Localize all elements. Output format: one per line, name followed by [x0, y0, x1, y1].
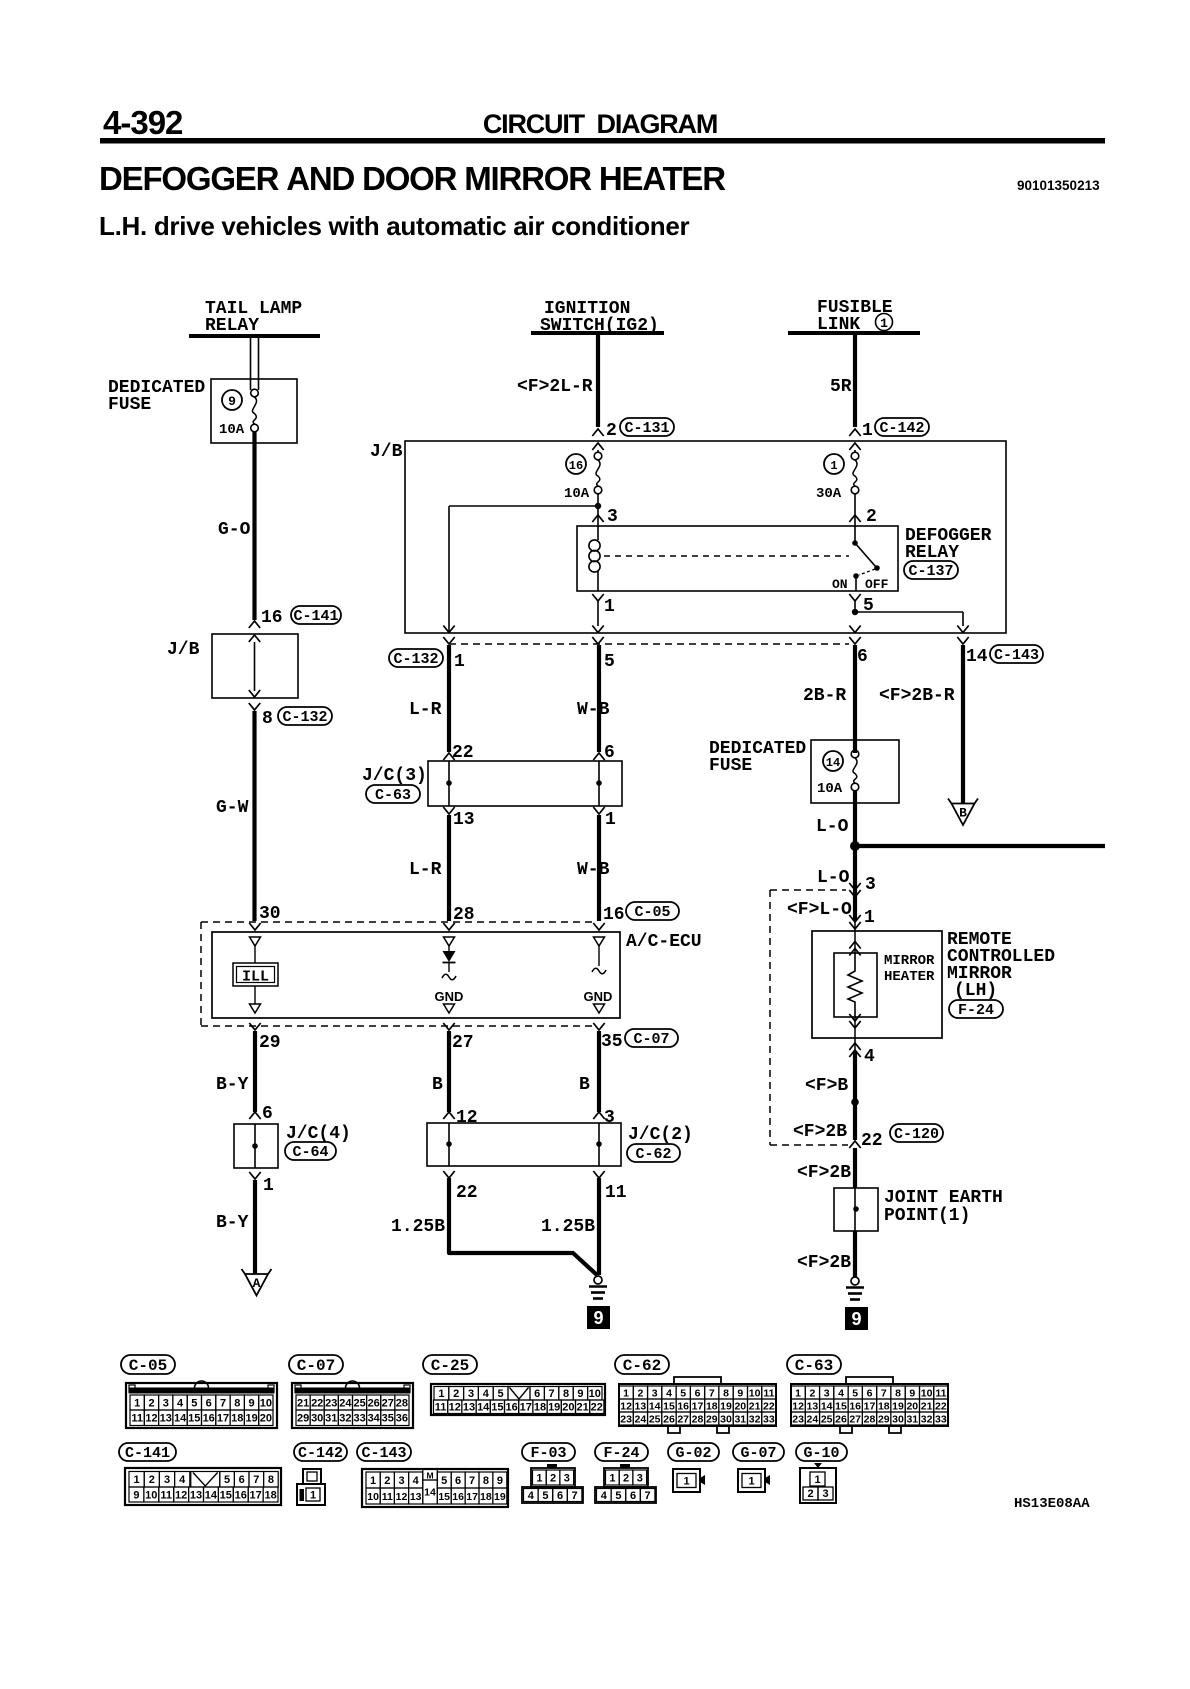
svg-text:18: 18 [264, 1490, 276, 1502]
svg-text:L-R: L-R [409, 860, 442, 880]
svg-text:16: 16 [505, 1402, 517, 1414]
svg-text:6: 6 [604, 743, 615, 763]
svg-text:B: B [959, 806, 967, 821]
svg-text:20: 20 [260, 1413, 272, 1425]
svg-text:10: 10 [921, 1387, 933, 1399]
svg-text:C-142: C-142 [879, 420, 924, 437]
svg-text:G-10: G-10 [803, 1445, 839, 1462]
svg-text:10: 10 [260, 1398, 272, 1410]
svg-text:G-02: G-02 [675, 1445, 711, 1462]
svg-text:<F>2B: <F>2B [797, 1163, 851, 1183]
svg-text:16: 16 [452, 1491, 464, 1503]
svg-text:3: 3 [652, 1387, 658, 1399]
svg-text:13: 13 [410, 1491, 422, 1503]
svg-text:6: 6 [857, 647, 868, 667]
svg-text:19: 19 [892, 1400, 904, 1412]
svg-text:20: 20 [734, 1400, 746, 1412]
svg-text:17: 17 [520, 1402, 532, 1414]
svg-text:16: 16 [235, 1490, 247, 1502]
svg-text:17: 17 [466, 1491, 478, 1503]
svg-text:5: 5 [680, 1387, 686, 1399]
svg-text:1: 1 [609, 1473, 615, 1485]
svg-text:26: 26 [835, 1413, 847, 1425]
svg-text:2: 2 [623, 1473, 629, 1485]
svg-text:10A: 10A [817, 781, 843, 797]
svg-text:W-B: W-B [577, 860, 610, 880]
svg-text:2: 2 [384, 1475, 390, 1487]
svg-text:5: 5 [615, 1490, 621, 1502]
svg-text:B: B [579, 1075, 590, 1095]
svg-text:11: 11 [160, 1490, 172, 1502]
svg-text:19: 19 [494, 1491, 506, 1503]
svg-text:4: 4 [528, 1490, 535, 1502]
svg-text:9: 9 [577, 1388, 583, 1400]
svg-text:9: 9 [909, 1387, 915, 1399]
svg-text:11: 11 [935, 1387, 946, 1399]
svg-text:3: 3 [164, 1474, 170, 1486]
svg-text:34: 34 [368, 1413, 381, 1425]
svg-text:9: 9 [593, 1308, 603, 1328]
svg-text:7: 7 [572, 1490, 578, 1502]
svg-text:11: 11 [763, 1387, 774, 1399]
svg-text:2: 2 [866, 507, 877, 527]
svg-text:C-141: C-141 [125, 1445, 170, 1462]
svg-text:20: 20 [906, 1400, 918, 1412]
svg-text:12: 12 [449, 1402, 461, 1414]
svg-text:1: 1 [795, 1387, 801, 1399]
svg-text:L.H. drive vehicles with autom: L.H. drive vehicles with automatic air c… [99, 211, 690, 241]
svg-text:1: 1 [862, 421, 873, 441]
svg-text:19: 19 [720, 1400, 732, 1412]
svg-text:5: 5 [224, 1474, 230, 1486]
svg-text:26: 26 [368, 1398, 380, 1410]
svg-text:4: 4 [483, 1388, 490, 1400]
svg-text:13: 13 [635, 1400, 647, 1412]
svg-text:3: 3 [824, 1387, 830, 1399]
svg-text:29: 29 [259, 1033, 281, 1053]
svg-text:C-05: C-05 [129, 1357, 167, 1375]
svg-text:12: 12 [396, 1491, 408, 1503]
svg-text:2: 2 [807, 1488, 813, 1500]
svg-text:FUSE: FUSE [108, 395, 151, 415]
svg-text:C-142: C-142 [298, 1445, 343, 1462]
svg-text:1: 1 [134, 1474, 140, 1486]
svg-text:14: 14 [174, 1413, 187, 1425]
svg-text:14: 14 [826, 756, 840, 770]
svg-text:23: 23 [792, 1413, 804, 1425]
svg-text:2: 2 [149, 1474, 155, 1486]
svg-text:3: 3 [163, 1398, 169, 1410]
svg-text:RELAY: RELAY [205, 316, 259, 336]
svg-text:3: 3 [604, 1108, 615, 1128]
svg-text:5: 5 [542, 1490, 548, 1502]
svg-text:14: 14 [821, 1400, 833, 1412]
svg-text:10A: 10A [219, 422, 245, 438]
svg-text:10: 10 [145, 1490, 157, 1502]
svg-text:15: 15 [220, 1490, 232, 1502]
svg-text:6: 6 [695, 1387, 701, 1399]
svg-text:L-R: L-R [409, 700, 442, 720]
svg-text:7: 7 [709, 1387, 715, 1399]
svg-text:8: 8 [483, 1475, 489, 1487]
svg-text:9: 9 [497, 1475, 503, 1487]
svg-text:(LH): (LH) [954, 981, 997, 1001]
svg-text:6: 6 [239, 1474, 245, 1486]
svg-text:22: 22 [311, 1398, 323, 1410]
svg-text:17: 17 [249, 1490, 261, 1502]
svg-text:C-137: C-137 [908, 563, 953, 580]
svg-text:11: 11 [131, 1413, 143, 1425]
svg-text:GND: GND [584, 989, 613, 1004]
svg-text:17: 17 [864, 1400, 876, 1412]
svg-text:F-24: F-24 [958, 1002, 994, 1019]
svg-text:8: 8 [895, 1387, 901, 1399]
svg-text:HEATER: HEATER [884, 969, 935, 985]
svg-text:18: 18 [480, 1491, 492, 1503]
svg-text:1.25B: 1.25B [391, 1217, 445, 1237]
svg-text:J/C(2): J/C(2) [628, 1125, 693, 1145]
svg-text:C-05: C-05 [634, 904, 670, 921]
svg-text:19: 19 [245, 1413, 257, 1425]
svg-text:C-64: C-64 [292, 1144, 328, 1161]
svg-text:3: 3 [607, 507, 618, 527]
svg-text:21: 21 [576, 1402, 588, 1414]
svg-text:1: 1 [623, 1387, 629, 1399]
svg-text:L-O: L-O [816, 817, 849, 837]
svg-text:15: 15 [491, 1402, 503, 1414]
svg-text:W-B: W-B [577, 700, 610, 720]
svg-text:28: 28 [692, 1413, 704, 1425]
svg-text:1: 1 [310, 1489, 316, 1501]
svg-text:22: 22 [456, 1183, 478, 1203]
svg-text:35: 35 [601, 1032, 623, 1052]
svg-text:C-07: C-07 [297, 1357, 335, 1375]
svg-text:<F>2L-R: <F>2L-R [517, 377, 593, 397]
svg-text:27: 27 [452, 1033, 474, 1053]
svg-text:6: 6 [262, 1104, 273, 1124]
svg-text:C-132: C-132 [282, 709, 327, 726]
svg-text:20: 20 [562, 1402, 574, 1414]
svg-text:4: 4 [413, 1475, 420, 1487]
svg-text:5: 5 [498, 1388, 504, 1400]
svg-text:6: 6 [630, 1490, 636, 1502]
svg-text:B-Y: B-Y [216, 1075, 249, 1095]
svg-text:21: 21 [921, 1400, 933, 1412]
svg-text:25: 25 [353, 1398, 365, 1410]
svg-text:8: 8 [262, 709, 273, 729]
svg-text:29: 29 [297, 1413, 309, 1425]
svg-text:30: 30 [259, 904, 281, 924]
svg-text:5: 5 [441, 1475, 447, 1487]
svg-text:8: 8 [268, 1474, 274, 1486]
svg-text:<F>L-O: <F>L-O [787, 900, 852, 920]
svg-text:13: 13 [160, 1413, 172, 1425]
svg-text:4: 4 [666, 1387, 672, 1399]
svg-text:18: 18 [706, 1400, 718, 1412]
svg-text:32: 32 [339, 1413, 351, 1425]
svg-text:4: 4 [838, 1387, 844, 1399]
svg-text:19: 19 [548, 1402, 560, 1414]
svg-text:6: 6 [534, 1388, 540, 1400]
svg-text:35: 35 [382, 1413, 394, 1425]
svg-text:15: 15 [188, 1413, 200, 1425]
svg-text:4-392: 4-392 [103, 104, 183, 141]
svg-text:11: 11 [382, 1491, 393, 1503]
svg-text:4: 4 [177, 1398, 184, 1410]
svg-text:ILL: ILL [242, 969, 269, 986]
svg-text:12: 12 [620, 1400, 632, 1412]
svg-text:3: 3 [637, 1473, 643, 1485]
svg-text:C-143: C-143 [994, 647, 1039, 664]
svg-text:1: 1 [134, 1398, 140, 1410]
svg-text:32: 32 [921, 1413, 933, 1425]
svg-text:12: 12 [175, 1490, 187, 1502]
svg-text:18: 18 [878, 1400, 890, 1412]
svg-text:17: 17 [217, 1413, 229, 1425]
svg-text:30: 30 [311, 1413, 323, 1425]
svg-text:<F>2B-R: <F>2B-R [879, 686, 955, 706]
svg-text:31: 31 [734, 1413, 746, 1425]
svg-text:9: 9 [133, 1490, 139, 1502]
svg-text:28: 28 [396, 1398, 408, 1410]
svg-text:8: 8 [723, 1387, 729, 1399]
svg-text:11: 11 [435, 1402, 447, 1414]
svg-text:MIRROR: MIRROR [884, 953, 935, 969]
svg-text:G-O: G-O [218, 520, 251, 540]
svg-text:2: 2 [550, 1473, 556, 1485]
svg-text:27: 27 [849, 1413, 861, 1425]
svg-text:7: 7 [253, 1474, 259, 1486]
svg-text:3: 3 [822, 1488, 828, 1500]
svg-text:10: 10 [749, 1387, 761, 1399]
svg-text:15: 15 [835, 1400, 847, 1412]
svg-text:RELAY: RELAY [905, 543, 959, 563]
svg-text:10A: 10A [564, 486, 590, 502]
svg-text:90101350213: 90101350213 [1017, 178, 1100, 193]
svg-text:B-Y: B-Y [216, 1213, 249, 1233]
svg-text:18: 18 [231, 1413, 243, 1425]
svg-text:1: 1 [880, 316, 888, 331]
svg-text:30: 30 [720, 1413, 732, 1425]
svg-text:FUSE: FUSE [709, 756, 752, 776]
svg-text:A: A [253, 1276, 261, 1291]
svg-text:C-63: C-63 [375, 787, 411, 804]
svg-text:C-143: C-143 [361, 1445, 406, 1462]
svg-text:1: 1 [830, 459, 837, 473]
svg-text:15: 15 [438, 1491, 450, 1503]
svg-text:30A: 30A [816, 486, 842, 502]
svg-text:9: 9 [737, 1387, 743, 1399]
svg-text:1: 1 [683, 1476, 689, 1488]
svg-text:F-24: F-24 [603, 1445, 639, 1462]
svg-text:J/B: J/B [167, 640, 200, 660]
svg-text:13: 13 [807, 1400, 819, 1412]
svg-text:5: 5 [604, 652, 615, 672]
svg-text:2B-R: 2B-R [803, 686, 846, 706]
svg-text:22: 22 [935, 1400, 947, 1412]
svg-text:J/B: J/B [370, 442, 403, 462]
svg-text:10: 10 [367, 1491, 379, 1503]
svg-text:C-141: C-141 [293, 608, 338, 625]
svg-text:32: 32 [749, 1413, 761, 1425]
svg-text:J/C(4): J/C(4) [286, 1124, 351, 1144]
svg-text:7: 7 [469, 1475, 475, 1487]
svg-text:6: 6 [455, 1475, 461, 1487]
svg-text:28: 28 [864, 1413, 876, 1425]
svg-text:16: 16 [203, 1413, 215, 1425]
svg-text:14: 14 [649, 1400, 661, 1412]
svg-text:16: 16 [569, 459, 583, 473]
svg-text:1: 1 [454, 652, 465, 672]
svg-text:1: 1 [605, 810, 616, 830]
svg-text:33: 33 [763, 1413, 775, 1425]
svg-text:C-25: C-25 [431, 1357, 469, 1375]
svg-text:C-120: C-120 [894, 1126, 939, 1143]
svg-text:22: 22 [763, 1400, 775, 1412]
svg-text:8: 8 [563, 1388, 569, 1400]
svg-text:12: 12 [145, 1413, 157, 1425]
svg-text:14: 14 [966, 647, 988, 667]
svg-text:26: 26 [663, 1413, 675, 1425]
svg-text:3: 3 [564, 1473, 570, 1485]
svg-text:C-131: C-131 [624, 420, 669, 437]
svg-text:6: 6 [867, 1387, 873, 1399]
svg-text:16: 16 [677, 1400, 689, 1412]
svg-text:GND: GND [435, 989, 464, 1004]
svg-text:5: 5 [852, 1387, 858, 1399]
svg-text:10: 10 [589, 1388, 601, 1400]
svg-text:16: 16 [849, 1400, 861, 1412]
svg-text:1: 1 [263, 1176, 274, 1196]
svg-text:24: 24 [807, 1413, 819, 1425]
svg-text:6: 6 [206, 1398, 212, 1410]
svg-text:1: 1 [604, 597, 615, 617]
svg-text:1: 1 [814, 1474, 820, 1486]
svg-text:1: 1 [748, 1476, 754, 1488]
svg-text:31: 31 [325, 1413, 337, 1425]
svg-text:ON: ON [832, 577, 848, 592]
svg-text:<F>B: <F>B [805, 1076, 848, 1096]
svg-text:C-07: C-07 [633, 1031, 669, 1048]
svg-text:C-62: C-62 [623, 1357, 661, 1375]
svg-text:5: 5 [191, 1398, 197, 1410]
svg-text:7: 7 [645, 1490, 651, 1502]
svg-text:13: 13 [463, 1402, 475, 1414]
svg-text:13: 13 [453, 810, 475, 830]
svg-text:5R: 5R [830, 377, 852, 397]
svg-text:JOINT EARTH: JOINT EARTH [884, 1188, 1003, 1208]
svg-text:DEFOGGER AND DOOR MIRROR HEATE: DEFOGGER AND DOOR MIRROR HEATER [99, 160, 726, 197]
svg-text:3: 3 [865, 875, 876, 895]
svg-text:POINT(1): POINT(1) [884, 1206, 970, 1226]
svg-text:22: 22 [591, 1402, 603, 1414]
svg-text:3: 3 [468, 1388, 474, 1400]
svg-text:2: 2 [809, 1387, 815, 1399]
svg-text:J/C(3): J/C(3) [362, 766, 427, 786]
svg-text:14: 14 [477, 1402, 490, 1414]
svg-text:OFF: OFF [865, 577, 889, 592]
svg-text:24: 24 [339, 1398, 352, 1410]
svg-text:F-03: F-03 [530, 1445, 566, 1462]
svg-text:C-132: C-132 [393, 651, 438, 668]
svg-text:30: 30 [892, 1413, 904, 1425]
svg-text:1: 1 [864, 908, 875, 928]
svg-text:14: 14 [205, 1490, 218, 1502]
svg-text:33: 33 [353, 1413, 365, 1425]
svg-text:7: 7 [881, 1387, 887, 1399]
svg-text:2: 2 [148, 1398, 154, 1410]
svg-text:6: 6 [557, 1490, 563, 1502]
svg-text:23: 23 [620, 1413, 632, 1425]
svg-text:23: 23 [325, 1398, 337, 1410]
svg-text:4: 4 [601, 1490, 608, 1502]
svg-text:2: 2 [606, 421, 617, 441]
svg-text:1: 1 [536, 1473, 542, 1485]
svg-text:<F>2B: <F>2B [797, 1253, 851, 1273]
svg-text:13: 13 [190, 1490, 202, 1502]
svg-text:9: 9 [851, 1309, 861, 1329]
svg-text:24: 24 [635, 1413, 647, 1425]
svg-text:C-62: C-62 [635, 1146, 671, 1163]
svg-text:14: 14 [424, 1487, 436, 1499]
svg-text:31: 31 [906, 1413, 918, 1425]
svg-text:33: 33 [935, 1413, 947, 1425]
svg-text:1.25B: 1.25B [541, 1217, 595, 1237]
svg-text:L-O: L-O [817, 868, 850, 888]
svg-text:12: 12 [456, 1108, 478, 1128]
svg-text:29: 29 [706, 1413, 718, 1425]
svg-text:12: 12 [792, 1400, 804, 1412]
svg-text:2: 2 [453, 1388, 459, 1400]
svg-text:HS13E08AA: HS13E08AA [1014, 1496, 1090, 1512]
svg-text:25: 25 [821, 1413, 833, 1425]
svg-text:4: 4 [864, 1047, 875, 1067]
svg-text:A/C-ECU: A/C-ECU [626, 932, 702, 952]
svg-text:5: 5 [863, 596, 874, 616]
svg-text:G-W: G-W [216, 798, 249, 818]
svg-text:M: M [426, 1470, 433, 1480]
svg-text:2: 2 [637, 1387, 643, 1399]
svg-text:25: 25 [649, 1413, 661, 1425]
svg-text:22: 22 [861, 1131, 883, 1151]
svg-text:4: 4 [179, 1474, 186, 1486]
svg-text:G-07: G-07 [740, 1445, 776, 1462]
svg-text:29: 29 [878, 1413, 890, 1425]
svg-text:C-63: C-63 [795, 1357, 833, 1375]
svg-text:8: 8 [234, 1398, 240, 1410]
svg-text:9: 9 [228, 394, 236, 409]
svg-text:17: 17 [692, 1400, 704, 1412]
svg-text:21: 21 [297, 1398, 309, 1410]
svg-text:16: 16 [261, 608, 283, 628]
svg-text:B: B [432, 1075, 443, 1095]
svg-text:27: 27 [382, 1398, 394, 1410]
svg-text:CIRCUIT DIAGRAM: CIRCUIT DIAGRAM [483, 109, 717, 139]
svg-text:18: 18 [534, 1402, 546, 1414]
svg-text:36: 36 [396, 1413, 408, 1425]
svg-text:15: 15 [663, 1400, 675, 1412]
svg-text:11: 11 [605, 1183, 627, 1203]
svg-text:27: 27 [677, 1413, 689, 1425]
svg-text:1: 1 [370, 1475, 376, 1487]
svg-text:7: 7 [220, 1398, 226, 1410]
svg-text:22: 22 [452, 743, 474, 763]
svg-text:1: 1 [438, 1388, 444, 1400]
svg-text:9: 9 [249, 1398, 255, 1410]
svg-text:3: 3 [398, 1475, 404, 1487]
svg-text:21: 21 [749, 1400, 761, 1412]
svg-text:7: 7 [549, 1388, 555, 1400]
